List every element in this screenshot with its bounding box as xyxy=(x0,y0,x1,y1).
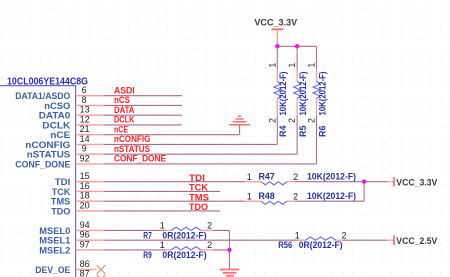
pin 21 nCE xyxy=(50,124,104,140)
wire R6 pin2 down to row xyxy=(316,115,318,164)
pin 9 nSTATUS xyxy=(27,144,104,160)
junction on VCC rail at R4 xyxy=(275,44,279,48)
svg-text:1: 1 xyxy=(160,240,165,250)
svg-text:0R(2012-F): 0R(2012-F) xyxy=(162,230,206,240)
wire TCK xyxy=(104,190,220,192)
svg-text:R6: R6 xyxy=(317,125,327,137)
svg-text:0R(2012-F): 0R(2012-F) xyxy=(299,240,343,250)
svg-text:TCK: TCK xyxy=(52,187,71,197)
pin 8 nCSO xyxy=(44,95,104,111)
svg-text:R9: R9 xyxy=(143,250,152,260)
wire TDI left xyxy=(104,181,245,183)
wire MSEL1 right to power xyxy=(343,239,387,241)
svg-text:94: 94 xyxy=(80,220,90,230)
svg-text:nCSO: nCSO xyxy=(44,101,70,111)
junction TDI/TMS pullup xyxy=(362,180,366,184)
svg-text:R5: R5 xyxy=(298,125,308,137)
svg-text:DATA: DATA xyxy=(114,105,135,115)
svg-text:DCLK: DCLK xyxy=(114,115,135,125)
pin 16 TCK xyxy=(52,181,104,197)
wire nCE horizontal xyxy=(104,134,240,136)
wire from rail to R4 xyxy=(276,46,278,69)
wire TMS right xyxy=(295,200,365,202)
pin 14 nCONFIG xyxy=(25,134,104,150)
wire nSTATUS xyxy=(104,153,297,155)
svg-text:1: 1 xyxy=(247,172,252,182)
pin 94 MSEL0 xyxy=(39,220,104,236)
svg-text:DCLK: DCLK xyxy=(42,120,71,130)
svg-text:nCS: nCS xyxy=(114,95,130,105)
svg-text:CONF_DONE: CONF_DONE xyxy=(15,159,70,169)
svg-text:DEV_OE: DEV_OE xyxy=(35,265,70,275)
pin 13 DATA0 xyxy=(39,105,104,121)
svg-text:87: 87 xyxy=(80,269,90,277)
svg-text:nSTATUS: nSTATUS xyxy=(27,150,71,160)
svg-text:2: 2 xyxy=(267,118,277,123)
svg-text:R4: R4 xyxy=(278,125,288,137)
svg-text:2: 2 xyxy=(287,118,297,123)
wire TMS vertical up to TDI rail xyxy=(363,182,365,202)
pin 18 TMS xyxy=(51,191,104,207)
wire DCLK xyxy=(104,124,182,126)
svg-text:8: 8 xyxy=(82,95,87,105)
resistor R7 0R(2012-F) xyxy=(143,221,213,241)
svg-text:2: 2 xyxy=(341,230,346,240)
svg-text:2: 2 xyxy=(207,221,212,231)
svg-text:R7: R7 xyxy=(143,230,152,240)
ground GND below MSEL xyxy=(220,270,240,276)
svg-text:13: 13 xyxy=(80,105,90,115)
svg-text:DATA0: DATA0 xyxy=(39,111,71,121)
svg-text:DATA1/ASDO: DATA1/ASDO xyxy=(15,91,70,101)
ground (earth, inverted) on nCE xyxy=(229,116,250,125)
svg-text:10K(2012-F): 10K(2012-F) xyxy=(317,71,327,115)
svg-text:12: 12 xyxy=(80,114,90,124)
resistor R6 10K(2012-F) vertical xyxy=(307,63,328,137)
wire R4 pin2 down to row xyxy=(276,115,278,144)
svg-text:20: 20 xyxy=(80,200,90,210)
svg-text:10CL006YE144C8G: 10CL006YE144C8G xyxy=(7,76,88,87)
power symbol VCC_2.5V xyxy=(387,235,438,245)
wire nCS xyxy=(104,104,182,106)
resistor R4 10K(2012-F) vertical xyxy=(267,63,288,137)
svg-text:10K(2012-F): 10K(2012-F) xyxy=(307,191,356,201)
svg-text:1: 1 xyxy=(307,63,317,68)
svg-text:R47: R47 xyxy=(259,171,275,181)
svg-text:R56: R56 xyxy=(278,240,292,250)
wire TMS left xyxy=(104,200,245,202)
svg-text:86: 86 xyxy=(80,259,90,269)
svg-text:VCC_3.3V: VCC_3.3V xyxy=(254,17,298,27)
FPGA U1 10CL006YE144C8G body xyxy=(0,76,88,277)
wire TDI right to power xyxy=(295,181,388,183)
svg-text:10K(2012-F): 10K(2012-F) xyxy=(307,171,356,181)
svg-text:14: 14 xyxy=(80,134,90,144)
svg-text:1: 1 xyxy=(295,230,300,240)
no-connect X on pin 87 xyxy=(97,275,106,277)
junction MSEL2 xyxy=(227,248,231,252)
svg-text:R48: R48 xyxy=(259,191,275,201)
svg-text:nCONFIG: nCONFIG xyxy=(25,140,70,150)
svg-text:1: 1 xyxy=(287,63,297,68)
svg-text:10K(2012-F): 10K(2012-F) xyxy=(278,71,288,115)
wire MSEL2 to junction xyxy=(213,249,229,251)
svg-text:ASDI: ASDI xyxy=(114,85,135,95)
svg-text:18: 18 xyxy=(80,191,90,201)
pin 12 DCLK xyxy=(42,114,104,130)
wire CONF_DONE xyxy=(104,163,317,165)
resistor R48 10K(2012-F) xyxy=(245,191,356,205)
svg-text:15: 15 xyxy=(80,171,90,181)
svg-text:CONF_DONE: CONF_DONE xyxy=(114,154,166,164)
svg-text:nCE: nCE xyxy=(114,124,128,134)
pin 87 xyxy=(76,269,97,277)
svg-text:VCC_3.3V: VCC_3.3V xyxy=(396,177,438,187)
svg-text:1: 1 xyxy=(247,191,252,201)
svg-text:21: 21 xyxy=(80,124,90,134)
wire MSEL0 to corner xyxy=(213,229,229,231)
wire MSEL1 left xyxy=(104,239,298,241)
resistor R9 0R(2012-F) xyxy=(143,240,213,260)
wire ASDI xyxy=(104,95,182,97)
pin 6 DATA1/ASDO xyxy=(15,85,104,101)
wire VCC stem xyxy=(276,43,278,47)
wire from rail to R6 xyxy=(316,46,318,69)
svg-text:2: 2 xyxy=(307,118,317,123)
pin 86 DEV_OE xyxy=(35,259,96,275)
svg-text:16: 16 xyxy=(80,181,90,191)
svg-text:6: 6 xyxy=(82,85,87,95)
wire DATA xyxy=(104,114,182,116)
wire R5 pin2 down to row xyxy=(296,115,298,154)
pin 15 TDI xyxy=(55,171,104,187)
svg-text:TMS: TMS xyxy=(51,197,71,207)
svg-text:1: 1 xyxy=(267,63,277,68)
svg-text:1: 1 xyxy=(160,221,165,231)
pin 92 CONF_DONE xyxy=(15,153,104,169)
svg-text:TDO: TDO xyxy=(51,206,70,216)
svg-text:nCONFIG: nCONFIG xyxy=(114,134,150,144)
no-connect X on pin 86 xyxy=(97,265,106,274)
svg-text:nSTATUS: nSTATUS xyxy=(114,144,150,154)
svg-text:VCC_2.5V: VCC_2.5V xyxy=(396,236,438,246)
svg-text:TDI: TDI xyxy=(55,177,71,187)
power symbol VCC_3.3V (right) xyxy=(387,177,438,187)
svg-text:MSEL1: MSEL1 xyxy=(39,236,70,246)
pin 97 MSEL2 xyxy=(39,239,104,255)
svg-text:MSEL0: MSEL0 xyxy=(39,226,70,236)
wire MSEL0 left xyxy=(104,229,165,231)
svg-text:MSEL2: MSEL2 xyxy=(39,245,70,255)
wire TDO xyxy=(104,210,220,212)
wire MSEL0/MSEL2 vertical to ground xyxy=(228,230,230,269)
svg-text:0R(2012-F): 0R(2012-F) xyxy=(162,250,206,260)
junction on VCC rail at R5 xyxy=(295,44,299,48)
svg-text:96: 96 xyxy=(80,230,90,240)
wire from rail to R5 xyxy=(296,46,298,69)
wire nCONFIG xyxy=(104,143,277,145)
wire VCC rail xyxy=(277,45,316,47)
resistor R5 10K(2012-F) vertical xyxy=(287,63,308,137)
wire MSEL2 left xyxy=(104,249,165,251)
svg-text:2: 2 xyxy=(293,191,298,201)
svg-text:9: 9 xyxy=(82,144,87,154)
svg-text:10K(2012-F): 10K(2012-F) xyxy=(298,71,308,115)
wire nCE vertical to ground xyxy=(239,125,241,135)
svg-text:92: 92 xyxy=(80,153,90,163)
resistor R56 0R(2012-F) xyxy=(278,230,346,250)
pin 96 MSEL1 xyxy=(39,230,104,246)
svg-text:2: 2 xyxy=(293,172,298,182)
svg-text:nCE: nCE xyxy=(50,130,70,140)
svg-text:2: 2 xyxy=(207,240,212,250)
power symbol VCC_3.3V (top) xyxy=(254,17,298,42)
resistor R47 10K(2012-F) xyxy=(245,171,356,185)
svg-text:97: 97 xyxy=(80,239,90,249)
pin 20 TDO xyxy=(51,200,104,216)
